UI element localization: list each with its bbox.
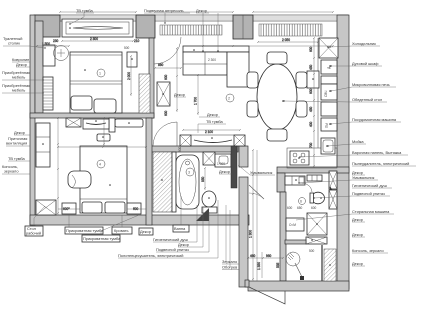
- dining table: [257, 64, 297, 130]
- svg-text:Декор: Декор: [196, 8, 207, 13]
- pier top-mid2: [233, 15, 253, 39]
- svg-text:Декор: Декор: [16, 62, 27, 67]
- label podvesnoy unitaz: [313, 191, 390, 199]
- label gigien dush: [352, 183, 392, 188]
- dim bath vert: [201, 167, 206, 190]
- leader zerkalo vert: [226, 205, 230, 268]
- radiator living: [160, 25, 222, 35]
- wall mid vertical lower: [239, 177, 248, 287]
- bathroom sink: [215, 154, 231, 167]
- bath2 shelf row: [307, 175, 322, 181]
- bed bedroom2: [80, 146, 127, 213]
- svg-text:СВЧ: СВЧ: [324, 91, 328, 97]
- svg-text:210: 210: [134, 39, 140, 43]
- svg-text:600: 600: [133, 207, 139, 211]
- bathroom storage hatch: [153, 152, 176, 212]
- label tualetny stolik: [3, 36, 46, 49]
- label konsol right: [352, 248, 388, 253]
- svg-text:мебель: мебель: [12, 88, 25, 93]
- washing machine: [286, 218, 304, 231]
- svg-text:Обогрев: Обогрев: [222, 265, 237, 270]
- svg-text:Микроволновая печь: Микроволновая печь: [352, 82, 390, 87]
- svg-text:Консоль, зеркало: Консоль, зеркало: [352, 248, 384, 253]
- svg-text:500: 500: [309, 249, 315, 253]
- svg-text:1 300: 1 300: [249, 230, 253, 238]
- svg-text:Декор: Декор: [174, 92, 185, 97]
- svg-text:6: 6: [300, 200, 302, 204]
- svg-text:Обеденный стол: Обеденный стол: [352, 97, 382, 102]
- bedroom2 wardrobe left: [36, 123, 50, 167]
- svg-text:Декор: Декор: [352, 232, 363, 237]
- room circle 1: [97, 69, 105, 77]
- label podvesnoy unitaz b: [156, 212, 209, 252]
- wall top window band: [35, 15, 348, 21]
- svg-text:ТВ тумба: ТВ тумба: [206, 119, 224, 124]
- dim sofa vertical: [194, 74, 200, 115]
- svg-text:Полотенцесушитель, электрическ: Полотенцесушитель, электрический: [118, 253, 183, 258]
- dim living top: [183, 45, 334, 47]
- sideboard: [307, 71, 319, 88]
- room circle 6: [299, 198, 306, 205]
- entry door arc: [154, 37, 181, 64]
- dim balcony: [247, 254, 284, 268]
- decor shaft X: [157, 82, 170, 106]
- svg-text:850: 850: [201, 176, 205, 182]
- shower: [286, 249, 315, 280]
- svg-text:Мойка: Мойка: [352, 139, 364, 144]
- label gigien dush b: [153, 205, 197, 242]
- dim ticks piers top: [59, 11, 334, 13]
- dim hall: [182, 129, 241, 134]
- bathroom door leaf: [196, 208, 209, 221]
- svg-text:ТВ тумба: ТВ тумба: [8, 156, 26, 161]
- chair top: [267, 52, 287, 64]
- nightstand b2 right: [127, 203, 141, 214]
- svg-text:1: 1: [99, 72, 101, 76]
- divider: [285, 240, 306, 244]
- label dekor r1: [352, 170, 365, 175]
- label prikrovatnaya1: [65, 215, 104, 234]
- wall left lower: [30, 15, 35, 225]
- wall bath2 left lower: [280, 192, 286, 281]
- svg-text:2 300: 2 300: [90, 37, 98, 41]
- kitchen sink: [321, 138, 335, 154]
- nightstand bedroom1: [127, 52, 137, 67]
- svg-text:Пылеудалитель, электрический: Пылеудалитель, электрический: [352, 161, 409, 166]
- label dekor b2: [178, 207, 203, 247]
- svg-text:Ванна: Ванна: [174, 226, 186, 231]
- label dekor bath1: [219, 169, 232, 174]
- svg-text:Духовой шкаф: Духовой шкаф: [352, 61, 379, 66]
- balcony outline: [249, 287, 285, 304]
- hall small piece: [109, 118, 115, 132]
- label tv tumba left: [8, 156, 30, 161]
- tv unit: [180, 135, 245, 146]
- box: [321, 102, 337, 116]
- bedroom2 chair X: [36, 200, 56, 215]
- wall bedroom1 right: [149, 38, 154, 118]
- cooktop: [290, 151, 309, 165]
- dim bath2 row: [287, 206, 317, 210]
- bath2 black wedge: [330, 186, 334, 193]
- label dekor r2: [352, 217, 365, 222]
- dim wardrobe: [61, 37, 134, 42]
- svg-text:3: 3: [188, 171, 190, 175]
- svg-text:600: 600: [311, 206, 317, 210]
- label stol rabochiy: [25, 206, 45, 236]
- label priobr2: [2, 83, 44, 94]
- svg-text:4: 4: [99, 163, 101, 167]
- pier top-mid1: [136, 15, 155, 38]
- label mikrovolnovka: [330, 82, 396, 92]
- oven: [321, 60, 337, 74]
- svg-text:600: 600: [63, 207, 69, 211]
- wall left upper thick: [35, 21, 43, 113]
- bedroom2 tv shelf X: [66, 118, 81, 127]
- label umyvalnik bath1: [238, 165, 275, 175]
- svg-text:Умывальник: Умывальник: [352, 175, 375, 180]
- dim bedroom2 hline: [57, 146, 147, 148]
- wall right: [337, 15, 349, 289]
- svg-text:600: 600: [309, 46, 313, 52]
- label tv tumba top: [69, 8, 94, 25]
- svg-text:Прикроватная тумба: Прикроватная тумба: [66, 228, 104, 233]
- hall console: [115, 119, 143, 127]
- svg-text:Декор: Декор: [352, 261, 363, 266]
- dim entry: [154, 63, 182, 69]
- svg-text:500: 500: [124, 46, 130, 50]
- label dekor r4: [352, 261, 365, 266]
- wall mid vertical upper: [239, 146, 248, 167]
- svg-text:2 100: 2 100: [205, 130, 213, 134]
- wall bath2 left upper: [277, 173, 285, 192]
- bath2 door diagonal: [249, 185, 264, 199]
- svg-text:600: 600: [164, 74, 168, 80]
- room circle 3: [186, 168, 194, 176]
- svg-text:2: 2: [228, 97, 230, 101]
- svg-text:2 300: 2 300: [208, 58, 216, 62]
- wall bathroom top: [148, 146, 238, 152]
- label kholodilnik: [329, 41, 380, 48]
- label priobr1: [2, 70, 44, 81]
- dim shaft 600s: [164, 74, 168, 116]
- svg-text:Декор: Декор: [352, 217, 363, 222]
- bathroom shaft X: [203, 152, 215, 165]
- label dekor shaft: [174, 92, 186, 97]
- label stiralnaya: [296, 209, 394, 220]
- bath2 vanity cabinet: [285, 176, 305, 185]
- svg-text:700: 700: [309, 142, 313, 148]
- svg-text:Умывальник: Умывальник: [250, 170, 273, 175]
- svg-text:Посудомоечная машина: Посудомоечная машина: [352, 117, 397, 122]
- dim corridor vertical: [249, 149, 255, 281]
- svg-text:1 500: 1 500: [42, 42, 50, 46]
- bath2 shaft upper: [329, 171, 337, 189]
- label konsol left: [2, 164, 30, 174]
- svg-text:2 000: 2 000: [127, 72, 131, 80]
- label dekor top: [196, 8, 219, 52]
- label kovrolin: [12, 57, 30, 67]
- chair right2: [296, 101, 307, 117]
- svg-text:450: 450: [309, 64, 313, 70]
- label obedenny stol: [283, 97, 387, 102]
- label zerkalo balc: [222, 259, 239, 270]
- nightstand b2 left: [62, 203, 76, 214]
- svg-text:400: 400: [309, 121, 313, 127]
- wall bedroom2 right: [146, 118, 152, 225]
- svg-text:2 050: 2 050: [282, 38, 290, 42]
- dim bedroom2: [63, 207, 139, 211]
- svg-text:Подвесной унитаз: Подвесной унитаз: [352, 191, 385, 196]
- bath2 door arc: [302, 183, 312, 192]
- bedroom2 armchair: [68, 171, 91, 188]
- towel radiator: [322, 245, 336, 281]
- label vanna: [173, 196, 189, 232]
- dishwasher: [321, 118, 337, 131]
- room circle 4: [97, 160, 105, 168]
- svg-text:650: 650: [297, 206, 303, 210]
- label antresol top: [144, 8, 190, 24]
- svg-text:800: 800: [178, 146, 182, 152]
- svg-text:960: 960: [266, 254, 272, 258]
- label prikrovatnaya2: [82, 215, 139, 242]
- toilet bath2: [310, 192, 325, 204]
- room circle 2: [226, 94, 234, 102]
- shaft X big: [307, 213, 327, 235]
- svg-text:Стиральная машина: Стиральная машина: [352, 209, 390, 214]
- label dukhovoy: [330, 61, 382, 67]
- svg-text:рабочий: рабочий: [26, 231, 41, 236]
- bath2 shaft lower: [329, 190, 337, 209]
- dim kitchen vertical: [309, 37, 315, 168]
- svg-text:Зеркало: Зеркало: [222, 259, 237, 264]
- svg-text:столик: столик: [8, 41, 20, 46]
- wall bottom-left: [30, 215, 249, 225]
- chair right1: [296, 72, 307, 88]
- chair left1: [247, 72, 258, 88]
- label dekor left: [14, 130, 30, 135]
- sofa: [183, 46, 249, 87]
- svg-text:Декор: Декор: [140, 229, 151, 234]
- wall bedroom divider: [30, 113, 154, 118]
- label umyvalnik: [298, 175, 378, 184]
- chair bottom: [267, 129, 287, 141]
- duct bar bathroom right: [231, 146, 237, 188]
- fridge: [319, 38, 338, 58]
- hall door arc: [153, 122, 177, 146]
- label tv tumba living: [198, 119, 226, 133]
- shelf box: [321, 76, 337, 84]
- svg-text:Холодильник: Холодильник: [352, 41, 376, 46]
- wardrobe hatched bedroom1: [139, 74, 150, 113]
- svg-text:вентиляция: вентиляция: [6, 141, 27, 146]
- label dekor r3: [352, 232, 365, 237]
- dim balcony inner: [257, 252, 262, 278]
- svg-text:Варочная панель, Вытяжка: Варочная панель, Вытяжка: [352, 150, 402, 155]
- label dekor living: [199, 112, 220, 117]
- svg-text:450: 450: [309, 106, 313, 112]
- label varochnaya: [299, 150, 408, 158]
- toilet bathroom1: [202, 191, 217, 213]
- svg-text:600: 600: [309, 88, 313, 94]
- dim bedroom2 bottom: [58, 208, 146, 210]
- microwave: [321, 84, 337, 100]
- svg-text:1 350: 1 350: [257, 262, 261, 270]
- label polotentsesushitel: [118, 200, 218, 258]
- kitchen counter outline: [287, 38, 337, 168]
- wardrobe bedroom1: [62, 19, 133, 37]
- chair left2: [247, 101, 258, 117]
- label pyleudalitel: [352, 161, 416, 166]
- hall bench: [97, 134, 110, 141]
- svg-text:230: 230: [53, 39, 59, 43]
- svg-text:Гигиенический душ: Гигиенический душ: [352, 183, 387, 188]
- label pritochnaya: [6, 136, 30, 146]
- pier top-left: [34, 15, 60, 37]
- svg-text:Прикроватная тумба: Прикроватная тумба: [83, 236, 121, 241]
- label moyka: [327, 139, 366, 147]
- svg-text:890: 890: [158, 63, 164, 67]
- dim bedroom1 top: [36, 42, 70, 47]
- svg-text:Декор: Декор: [207, 112, 218, 117]
- svg-text:зеркало: зеркало: [4, 169, 19, 174]
- drawers radiator bedroom1: [43, 77, 53, 110]
- svg-text:1 000: 1 000: [217, 162, 225, 166]
- svg-text:460: 460: [250, 254, 256, 258]
- crossed cabinet: [306, 237, 327, 244]
- svg-text:ТВ тумба: ТВ тумба: [76, 8, 94, 13]
- bathtub: [176, 146, 199, 209]
- dim wardrobe ends: [53, 39, 140, 43]
- svg-text:Декор: Декор: [219, 169, 230, 174]
- svg-text:600: 600: [287, 206, 293, 210]
- svg-text:Ст.М: Ст.М: [289, 223, 296, 227]
- svg-text:мебель: мебель: [12, 75, 25, 80]
- dim kitchen top: [257, 38, 319, 43]
- bedroom2 tv console: [83, 119, 109, 129]
- radiator kitchen: [259, 24, 322, 36]
- vanity stool: [54, 46, 69, 61]
- svg-text:Подвесной унитаз: Подвесной унитаз: [156, 247, 189, 252]
- dim bedroom2 vline: [57, 117, 59, 215]
- svg-text:Подвесная антресоль: Подвесная антресоль: [144, 8, 184, 13]
- wall kitchen-bath2: [277, 167, 349, 173]
- dim corridor upper: [256, 150, 258, 281]
- svg-text:1 700: 1 700: [194, 97, 198, 105]
- bed bedroom1: [70, 52, 122, 113]
- dim bedroom1 right vert: [127, 55, 132, 96]
- dim living vert: [176, 47, 178, 112]
- label krovat: [112, 215, 132, 234]
- vanity table: [43, 45, 55, 66]
- svg-text:Кровать: Кровать: [114, 228, 129, 233]
- label posudomoyka: [330, 117, 401, 125]
- label dekor b: [139, 228, 153, 235]
- svg-text:600: 600: [164, 110, 168, 116]
- svg-text:ПМ: ПМ: [325, 123, 329, 128]
- svg-text:535: 535: [276, 262, 280, 268]
- svg-text:Декор: Декор: [14, 130, 25, 135]
- dim bedroom2 inner vline: [103, 117, 105, 146]
- wall bottom-right: [248, 281, 349, 291]
